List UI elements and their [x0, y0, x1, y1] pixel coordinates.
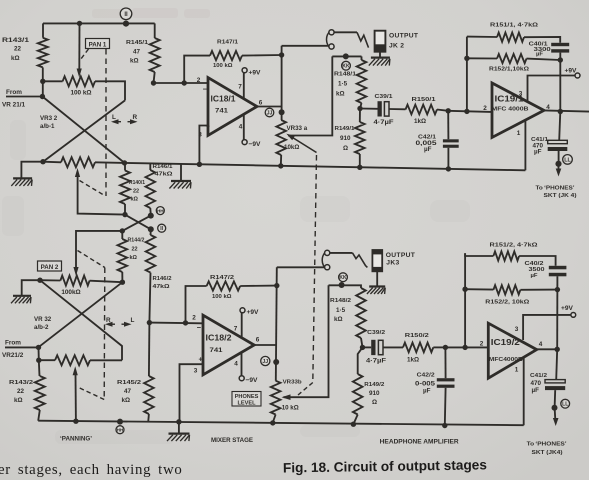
svg-text:−: − [203, 85, 208, 94]
wire wiper PAN2a [76, 231, 122, 268]
wire ground bus bottom [38, 421, 524, 426]
wire to jack JK3 [277, 266, 325, 268]
node II [158, 224, 166, 232]
wire output pin 4 [544, 110, 589, 111]
svg-text:C42/2: C42/2 [417, 373, 436, 379]
svg-text:1kΩ: 1kΩ [407, 357, 419, 364]
svg-text:R144/2: R144/2 [128, 238, 145, 244]
capacitor C40/1 plate [551, 43, 569, 46]
wire feedback vertical [466, 37, 468, 112]
wire ground bus [125, 163, 526, 170]
dashed gang link [78, 251, 105, 268]
capacitor C41/1 plate - [548, 147, 568, 151]
svg-text:To ‘PHONES’: To ‘PHONES’ [527, 442, 567, 448]
wire pin 3 to bus [180, 364, 203, 422]
node HH junction [148, 213, 154, 219]
resistor R151/1 [497, 33, 524, 42]
wire ground stem [180, 164, 182, 181]
ground [11, 178, 32, 186]
svg-text:−: − [197, 323, 202, 332]
wire [353, 415, 357, 425]
svg-text:MFC4000B: MFC4000B [489, 357, 523, 363]
svg-text:2: 2 [483, 105, 487, 112]
svg-text:−9V: −9V [246, 377, 259, 384]
arrow to phones [556, 169, 562, 177]
wire [150, 229, 152, 235]
svg-text:0-005: 0-005 [415, 380, 436, 387]
svg-text:LEVEL: LEVEL [237, 400, 256, 406]
junction R152/2 [462, 287, 467, 292]
svg-text:µF: µF [423, 388, 431, 395]
wire [359, 154, 361, 168]
svg-text:R149/1: R149/1 [335, 126, 356, 132]
junction feedback IC19/2 [462, 345, 467, 350]
wire [124, 204, 126, 215]
wire VR33a wiper to KK [288, 56, 332, 135]
junction C42/2 bottom [442, 423, 447, 428]
svg-text:R143/1: R143/1 [2, 37, 30, 44]
capacitor C40/1 plate 2 [551, 49, 569, 52]
svg-text:II: II [124, 12, 128, 18]
wire [465, 253, 493, 256]
svg-text:er stages, each having two: er stages, each having two [0, 462, 182, 478]
junction pin3 [197, 162, 202, 167]
wire [149, 273, 150, 323]
wire [42, 23, 44, 37]
wire [559, 112, 560, 141]
wire [90, 359, 122, 361]
wire crossover [40, 280, 122, 360]
svg-text:a/b-1: a/b-1 [40, 123, 55, 130]
junction R150/1 out [446, 108, 451, 113]
potentiometer VR32b 100k [55, 355, 90, 365]
wire [95, 161, 125, 164]
dashed gang link [80, 181, 105, 196]
dashed gang line VR33 [313, 155, 317, 383]
junction R146/2 bottom [147, 320, 152, 325]
wire output pin 4 [537, 348, 558, 350]
wiper arrow VR33a [286, 134, 295, 141]
svg-text:910: 910 [340, 135, 351, 142]
svg-text:kΩ: kΩ [130, 58, 139, 65]
junction R152/1 right [558, 57, 563, 62]
op-amp IC18/2 [203, 315, 254, 375]
wire +9V to pin 3 [528, 76, 576, 101]
svg-text:LL: LL [562, 402, 568, 408]
svg-text:R147/1: R147/1 [217, 40, 239, 46]
wire [149, 208, 152, 216]
wire KK to R148/2 [329, 284, 356, 286]
svg-text:7: 7 [238, 84, 242, 91]
resistor R147/2 [207, 281, 241, 290]
wire [242, 54, 282, 57]
svg-text:741: 741 [210, 347, 223, 354]
resistor R148/1 [357, 60, 367, 103]
junction C42/1 [446, 166, 451, 171]
potentiometer VR3-2b 100k [61, 157, 95, 167]
svg-text:47kΩ: 47kΩ [153, 284, 171, 290]
node LL [561, 399, 570, 408]
wire to phones [558, 164, 560, 171]
pot wiper arrow PAN1a [77, 69, 82, 78]
resistor R148/2 [356, 288, 366, 338]
junction PAN2b wiper [73, 419, 78, 424]
wire to IC19/2 pin 2 [445, 346, 487, 348]
svg-text:a/b-2: a/b-2 [34, 324, 49, 331]
wire [38, 360, 41, 376]
svg-text:R148/1: R148/1 [334, 72, 357, 78]
wire [355, 285, 361, 288]
node KK junction [339, 282, 345, 288]
junction VR33a [278, 163, 283, 168]
svg-text:µF: µF [424, 146, 432, 153]
resistor R144/2 [118, 239, 128, 272]
wire pin 7 [243, 73, 245, 99]
wire [447, 148, 449, 169]
junction bus [176, 419, 181, 424]
resistor R147/1 [210, 51, 242, 60]
ground [369, 58, 390, 66]
jack JK3 contacts [322, 250, 330, 270]
wire jack switch [330, 252, 353, 254]
junction pot2b left [36, 358, 41, 363]
wire [556, 349, 557, 379]
svg-text:1: 1 [517, 130, 521, 137]
+9V terminal [575, 73, 580, 78]
wire [465, 288, 493, 290]
svg-text:µF: µF [531, 273, 538, 279]
wire [154, 72, 155, 83]
wire [147, 414, 150, 422]
capacitor C42/2 plate [437, 378, 455, 381]
svg-text:µF: µF [534, 148, 542, 155]
capacitor C41/1 plate + [548, 140, 568, 143]
wire [154, 23, 156, 38]
svg-text:C40/2: C40/2 [525, 261, 545, 267]
wire crossover [43, 100, 125, 161]
svg-text:1·5: 1·5 [338, 81, 348, 88]
svg-text:2: 2 [480, 341, 484, 348]
wire VR33b wiper to KK [284, 285, 329, 397]
+9V terminal [571, 313, 576, 318]
wire [149, 163, 151, 170]
wire [444, 347, 446, 378]
wire [42, 67, 44, 96]
wire feedback vertical [464, 253, 466, 347]
wire [280, 155, 282, 166]
resistor R152/1 [497, 54, 527, 63]
wire [554, 390, 557, 408]
dashed gang line PAN2 [103, 268, 106, 400]
pot wiper arrow PAN2b [73, 366, 78, 375]
svg-text:To ‘PHONES’: To ‘PHONES’ [536, 186, 575, 192]
svg-text:kΩ: kΩ [334, 316, 343, 323]
svg-text:6: 6 [256, 337, 260, 344]
svg-text:+9V: +9V [247, 309, 260, 316]
svg-text:MIXER STAGE: MIXER STAGE [211, 437, 253, 444]
wire to IC18/2 pin 2 [149, 322, 202, 325]
svg-text:R145/1: R145/1 [126, 40, 149, 46]
wire [433, 346, 445, 348]
wire [447, 111, 449, 140]
svg-text:22: 22 [133, 189, 139, 195]
output jack JK2 block [375, 31, 386, 52]
svg-text:7: 7 [234, 326, 238, 333]
svg-text:6: 6 [259, 100, 263, 107]
svg-text:µF: µF [532, 387, 540, 394]
wire [520, 289, 557, 291]
svg-text:100 kΩ: 100 kΩ [212, 294, 232, 300]
junction From VR21/1 [40, 94, 45, 99]
wire [376, 271, 378, 286]
svg-text:Fig. 18. Circuit of output sta: Fig. 18. Circuit of output stages [283, 457, 487, 475]
junction pot2a left [37, 278, 42, 283]
PAN 2 label box [38, 261, 62, 271]
svg-text:‘PANNING’: ‘PANNING’ [60, 436, 92, 443]
wire crossover [122, 216, 151, 231]
L-R arrows [115, 121, 122, 123]
node HH [156, 207, 164, 215]
svg-text:From: From [6, 89, 22, 96]
wire top rail [43, 22, 155, 24]
wire from VR21/2 [5, 346, 39, 348]
svg-text:741: 741 [215, 108, 228, 115]
junction top rail / PAN1a wiper [77, 21, 82, 26]
svg-text:JJ: JJ [262, 359, 268, 365]
op-amp IC19/2 [488, 323, 536, 378]
resistor R145/2 [144, 376, 154, 414]
node LL [563, 155, 573, 165]
ground [367, 287, 385, 295]
svg-text:4·7µF: 4·7µF [374, 119, 394, 126]
node II junction [123, 21, 129, 27]
svg-text:Ω: Ω [372, 399, 377, 406]
svg-text:R149/2: R149/2 [364, 382, 385, 388]
junction VR33b bottom [270, 420, 275, 425]
wire output pin 6 [254, 344, 276, 346]
svg-text:R151/2, 4·7kΩ: R151/2, 4·7kΩ [490, 243, 538, 249]
svg-text:−9V: −9V [249, 141, 262, 148]
node JJ [265, 108, 274, 117]
jack JK3 switch contact [353, 253, 368, 268]
svg-text:10 kΩ: 10 kΩ [282, 405, 299, 412]
wire pin 1 to bus [524, 121, 526, 170]
svg-text:R150/2: R150/2 [405, 333, 430, 339]
svg-text:kΩ: kΩ [336, 91, 345, 98]
wire output pin 6 [257, 106, 282, 108]
resistor R149/1 [355, 122, 365, 154]
svg-text:KK: KK [339, 275, 347, 281]
junction From VR21/2 [36, 345, 41, 350]
svg-text:R148/2: R148/2 [330, 298, 352, 304]
svg-text:SKT (JK 4): SKT (JK 4) [544, 193, 577, 199]
arrow to phones [553, 418, 559, 426]
node HH [116, 426, 124, 434]
svg-text:PAN 1: PAN 1 [89, 41, 107, 48]
node JJ junction [273, 359, 279, 365]
wire [38, 347, 40, 360]
svg-text:PHONES: PHONES [235, 394, 259, 400]
wire [559, 53, 561, 112]
svg-text:100 kΩ: 100 kΩ [70, 90, 91, 97]
pot wiper arrow PAN1b [75, 168, 80, 177]
wire [360, 108, 378, 110]
wire wiper PAN2b [75, 374, 77, 421]
svg-text:100 kΩ: 100 kΩ [213, 63, 233, 69]
capacitor C39/1 plate [378, 101, 382, 116]
svg-text:OUTPUT: OUTPUT [386, 252, 416, 259]
output jack JK3 block [372, 250, 382, 271]
junction feedback R147/2 [183, 320, 188, 325]
wiper arrow VR33b [282, 394, 291, 400]
wire +9V to pin 3 [523, 315, 571, 340]
svg-text:kΩ: kΩ [131, 197, 139, 203]
node LL junction [555, 161, 561, 167]
svg-text:MFC 4000B: MFC 4000B [492, 107, 529, 113]
junction R148/1-C39/1-R149/1 [357, 106, 362, 111]
junction pin2 wire [151, 80, 156, 85]
svg-text:HEADPHONE AMPLIFIER: HEADPHONE AMPLIFIER [380, 439, 460, 446]
capacitor C40/2 plate [549, 266, 567, 270]
wire [38, 410, 40, 421]
svg-text:Ω: Ω [343, 145, 348, 152]
node JJ [261, 356, 270, 365]
svg-text:JJ: JJ [267, 110, 273, 116]
+9V terminal [240, 308, 245, 313]
wire [43, 161, 61, 164]
wire pin 4 [241, 353, 243, 376]
potentiometer VR32a 100k [60, 276, 89, 286]
node HH junction [117, 419, 123, 425]
wire to phones [554, 408, 557, 420]
jack JK2 switch contact [357, 32, 369, 47]
svg-text:47kΩ: 47kΩ [155, 172, 174, 178]
svg-text:R152/2, 10kΩ: R152/2, 10kΩ [485, 299, 529, 305]
svg-text:2: 2 [192, 315, 196, 322]
wire [121, 272, 123, 282]
svg-text:910: 910 [369, 390, 380, 397]
capacitor C41/2 plate - [545, 386, 565, 390]
resistor R143/2 [35, 376, 45, 410]
svg-text:100kΩ: 100kΩ [61, 289, 80, 296]
PHONES LEVEL label box [232, 392, 261, 407]
wire pin 1 to bus [523, 358, 525, 425]
junction R140/1 bottom [122, 212, 127, 217]
ground [167, 434, 190, 442]
dashed gang link VR33b [298, 383, 313, 396]
wire [43, 80, 63, 82]
wire output vertical [276, 267, 277, 380]
svg-text:R: R [133, 114, 138, 121]
jack JK2 contacts [327, 30, 335, 49]
resistor R149/2 [353, 374, 363, 415]
capacitor C41/2 plate + [545, 380, 565, 383]
ground [11, 296, 31, 304]
wire pin 4 [243, 115, 245, 140]
svg-text:4: 4 [239, 124, 243, 131]
svg-text:VR 32: VR 32 [34, 316, 52, 323]
svg-text:4: 4 [234, 361, 238, 368]
wire [361, 338, 363, 347]
svg-text:3: 3 [515, 326, 519, 333]
svg-text:IC18/1: IC18/1 [211, 94, 236, 104]
wire [95, 81, 125, 100]
svg-text:R150/1: R150/1 [412, 97, 437, 103]
svg-text:LL: LL [564, 157, 571, 163]
pot wiper arrow PAN2a [73, 267, 78, 276]
-9V terminal [239, 376, 244, 381]
svg-text:VR3 2: VR3 2 [40, 115, 58, 122]
svg-text:R147/2: R147/2 [210, 275, 235, 281]
wire [444, 388, 447, 426]
capacitor C39/2 plate 2 [378, 340, 383, 354]
junction pot1a left [40, 79, 45, 84]
svg-text:SKT (JK4): SKT (JK4) [532, 450, 563, 456]
svg-text:R146/2: R146/2 [153, 276, 172, 282]
capacitor C42/1 plate 2 [443, 145, 459, 148]
wire from VR21/1 [6, 96, 42, 98]
capacitor C39/2 plate [371, 340, 375, 355]
wire [40, 279, 60, 281]
node II junction [148, 226, 154, 232]
wire [556, 276, 558, 349]
wire [124, 163, 126, 171]
svg-text:PAN 2: PAN 2 [41, 264, 59, 271]
svg-text:JK3: JK3 [386, 260, 399, 267]
resistor R151/2 [493, 251, 519, 260]
wire feedback [186, 286, 207, 323]
resistor R145/1 [150, 38, 160, 72]
capacitor C40/2 plate 2 [549, 273, 567, 277]
svg-text:+9V: +9V [561, 305, 574, 312]
svg-text:R152/1,10kΩ: R152/1,10kΩ [489, 67, 529, 73]
wire to ground [21, 162, 43, 178]
wire [524, 37, 560, 43]
resistor R143/1 [38, 38, 48, 68]
junction feedback R147/1 [182, 80, 187, 85]
resistor R152/2 [493, 285, 520, 294]
wire [240, 285, 277, 287]
-9V terminal [242, 140, 247, 145]
wire [359, 109, 361, 123]
svg-text:3: 3 [194, 368, 198, 375]
wire crossover [125, 215, 151, 230]
svg-text:10kΩ: 10kΩ [284, 144, 299, 151]
wire wiper PAN1b [78, 176, 125, 215]
svg-text:1: 1 [515, 367, 519, 374]
wire [148, 323, 151, 376]
wire [437, 110, 448, 111]
svg-text:kΩ: kΩ [130, 255, 138, 261]
capacitor C39/1 plate 2 [384, 102, 389, 116]
potentiometer VR33a 10k [276, 120, 286, 155]
wire [90, 281, 123, 283]
svg-text:R145/2: R145/2 [117, 380, 142, 386]
wire [383, 346, 403, 348]
resistor R140/1 [120, 171, 130, 205]
svg-text:22: 22 [14, 46, 22, 53]
wire wiper PAN1a [78, 23, 80, 70]
junction pot1b left [40, 159, 45, 164]
wire [389, 108, 405, 110]
resistor R150/1 [406, 105, 438, 115]
svg-text:From: From [5, 340, 21, 347]
node KK [342, 61, 351, 70]
wire jack switch [334, 31, 357, 33]
junction feedback IC19/1 [464, 109, 469, 114]
svg-text:JK 2: JK 2 [389, 43, 404, 50]
svg-text:C41/2: C41/2 [530, 373, 548, 379]
